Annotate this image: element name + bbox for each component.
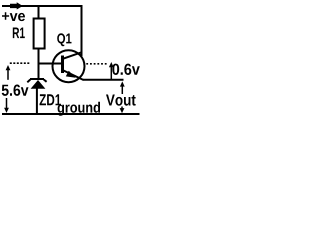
zener right wing: [44, 80, 47, 82]
label 0.6v: [112, 64, 140, 75]
arrow 5.6v down head: [4, 108, 9, 113]
transistor Q1 emitter lead: [64, 71, 84, 81]
arrow Vout down shaft: [121, 107, 123, 109]
wire right rail collector to +ve: [81, 5, 83, 56]
zener diode ZD1 anode triangle: [31, 80, 46, 89]
wire ground rail: [2, 113, 140, 115]
label Q1: [57, 33, 71, 46]
label 5.6v: [2, 85, 29, 96]
current arrow on +ve rail: [10, 2, 23, 9]
arrow 5.6v up shaft: [7, 69, 9, 80]
transistor Q1 base bar: [61, 56, 64, 74]
dotted line base level left: [10, 62, 30, 64]
arrow Vout down head: [120, 108, 125, 113]
zener diode ZD1 cathode bar: [30, 78, 44, 80]
dotted line base level right: [86, 63, 107, 65]
transistor Q1 emitter arrowhead: [66, 71, 76, 78]
arrow 5.6v up head: [6, 65, 11, 70]
wire base junction to Q1 base: [38, 63, 63, 65]
arrow Vout up shaft: [121, 86, 123, 94]
resistor R1: [34, 19, 45, 49]
zener left wing: [27, 80, 30, 83]
wire emitter output line: [83, 79, 124, 81]
label +ve: [2, 12, 25, 21]
arrow Vout up head: [120, 81, 125, 86]
wire +ve rail to R1 top: [38, 6, 40, 18]
label ZD1: [40, 94, 62, 105]
arrow 0.6v up shaft: [110, 66, 112, 79]
label R1: [13, 28, 25, 39]
arrow 5.6v down shaft: [6, 98, 8, 109]
wire top +ve rail: [2, 5, 82, 7]
label ground: [58, 102, 100, 116]
wire R1 bottom to zener ZD1: [38, 48, 40, 79]
transistor Q1 circle: [53, 50, 85, 82]
arrow 0.6v up head: [109, 62, 114, 67]
wire ZD1 to ground rail: [36, 88, 38, 114]
background: [0, 0, 142, 121]
label Vout: [106, 95, 136, 106]
transistor Q1 collector lead: [64, 52, 82, 58]
